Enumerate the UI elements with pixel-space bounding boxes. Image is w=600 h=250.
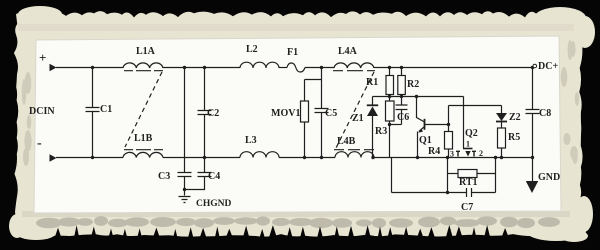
wire Z1 upper lead: [372, 97, 374, 105]
junction MOV1 bottom: [303, 156, 306, 159]
svg-text:+: +: [39, 50, 46, 65]
wire C1 upper lead: [92, 68, 94, 108]
L1A-L1B coupling dashed line: [125, 72, 162, 147]
svg-text:2: 2: [479, 149, 483, 158]
wire bottom rail seg3: [279, 157, 335, 159]
wire C3 lower lead: [184, 177, 186, 190]
wire R3 upper lead: [389, 97, 391, 102]
junction C1 bottom: [91, 156, 94, 159]
svg-text:C1: C1: [100, 104, 112, 115]
wire top rail seg4: [305, 67, 334, 69]
fuse F1: [287, 63, 305, 72]
svg-text:1: 1: [466, 140, 470, 149]
svg-text:3: 3: [450, 150, 454, 159]
svg-text:R2: R2: [407, 79, 419, 90]
svg-text:L4B: L4B: [337, 136, 356, 147]
zener Z1: [367, 104, 378, 106]
svg-text:C6: C6: [397, 112, 409, 123]
inductor L3: [240, 152, 279, 158]
junction R2 bottom: [400, 95, 403, 98]
svg-text:C3: C3: [158, 171, 170, 182]
svg-text:DCIN: DCIN: [29, 106, 55, 117]
junction C3-C4 bottom: [183, 188, 186, 191]
wire Q1 emitter lead: [417, 132, 419, 158]
wire top rail seg1: [56, 67, 123, 69]
junction Q1 base / R4: [447, 123, 450, 126]
inductor L2: [240, 62, 279, 68]
wire base bus: [449, 105, 502, 107]
wire R3 lower lead: [389, 121, 391, 125]
junction C8 bottom: [531, 156, 534, 159]
wire RT1 left vertical: [447, 158, 449, 193]
junction C8 top: [531, 66, 534, 69]
svg-text:C4: C4: [208, 171, 220, 182]
svg-text:L3: L3: [245, 135, 257, 146]
wire C6 upper lead: [401, 97, 403, 106]
svg-text:RT1: RT1: [459, 177, 478, 188]
svg-text:F1: F1: [287, 47, 298, 58]
node - input arrow: [50, 154, 57, 161]
junction R1 bottom: [388, 95, 391, 98]
svg-text:R5: R5: [508, 132, 520, 143]
junction C1 top: [91, 66, 94, 69]
svg-text:C7: C7: [461, 202, 473, 213]
triac Q2 terminals: [456, 151, 476, 156]
wire C2 upper lead: [204, 68, 206, 111]
capacitor C5: [315, 109, 329, 113]
wire R1 lower lead: [389, 95, 391, 97]
svg-text:-: -: [37, 136, 42, 151]
resistor R4: [445, 132, 453, 150]
junction R2 top: [400, 66, 403, 69]
wire bottom rail seg1: [56, 157, 123, 159]
wire R5 lower lead: [501, 148, 503, 158]
junction C5 top: [320, 66, 323, 69]
L1B core dashes: [124, 149, 163, 151]
svg-text:R1: R1: [366, 77, 378, 88]
svg-text:R4: R4: [428, 146, 440, 157]
svg-text:R3: R3: [375, 126, 387, 137]
svg-text:C2: C2: [207, 108, 219, 119]
wire R3-C6 bottom: [390, 124, 402, 126]
junction C2 bottom: [203, 156, 206, 159]
mat shading top: [18, 24, 574, 31]
svg-text:L2: L2: [246, 44, 258, 55]
wire C4 upper lead: [204, 158, 206, 173]
wire vertical x184: [184, 68, 186, 158]
capacitor C3: [178, 173, 192, 177]
wire R4 lower lead: [448, 149, 450, 158]
wire MOV1 lower lead: [304, 122, 306, 158]
thermistor RT1: [458, 170, 477, 178]
resistor R2: [398, 76, 406, 95]
wire top rail seg3: [279, 67, 287, 69]
svg-text:Q1: Q1: [419, 135, 432, 146]
wire C1 lower lead: [92, 112, 94, 158]
Q1 emitter: [419, 127, 425, 132]
capacitor C6: [396, 105, 408, 110]
junction Q1 collector tap: [415, 95, 418, 98]
wire R4 upper lead: [448, 106, 450, 132]
gray shading under panel: [22, 211, 570, 217]
wire R2 upper lead: [401, 68, 403, 76]
resistor R5: [498, 128, 506, 148]
L4A-L4B coupling dashed line: [336, 72, 374, 148]
wire C5 lower lead: [321, 113, 323, 158]
wire MOV1 branch: [305, 80, 322, 102]
wire C2 lower lead: [204, 115, 206, 158]
junction R3 bottom: [388, 123, 391, 126]
capacitor C7: [467, 188, 472, 197]
varistor MOV1: [301, 101, 309, 122]
junction Z1 bottom: [371, 156, 374, 159]
svg-text:Q2: Q2: [465, 128, 478, 139]
wire R1 upper lead: [389, 68, 391, 76]
wire R3 node to rail: [389, 125, 391, 158]
svg-text:L1B: L1B: [134, 133, 153, 144]
capacitor C1: [86, 108, 100, 112]
gray torn scallop row bottom: [36, 216, 560, 228]
junction C2 top: [203, 66, 206, 69]
svg-text:Z2: Z2: [509, 112, 521, 123]
wire Z2-R5: [501, 122, 503, 129]
svg-text:GND: GND: [538, 172, 560, 183]
gray spots left band: [22, 72, 32, 166]
inductor L4A: [334, 63, 374, 68]
transistor Q1: [417, 97, 425, 123]
svg-text:C8: C8: [539, 108, 551, 119]
resistor R1: [386, 76, 394, 95]
wire top rail seg5: [374, 67, 533, 69]
Q2 gate bar: [463, 148, 473, 150]
capacitor C4: [198, 173, 212, 177]
resistor R3: [386, 101, 395, 121]
wire C3 upper lead: [184, 158, 186, 173]
junction RT1 left top: [446, 156, 449, 159]
zener Z2: [496, 113, 507, 121]
junction C7 left: [446, 191, 449, 194]
L1A core dashes: [124, 70, 163, 72]
wire Z1 lower lead: [372, 116, 374, 158]
junction RT1 right top: [494, 156, 497, 159]
wire bottom rail seg2: [163, 157, 240, 159]
wire RT1 left lead: [448, 173, 459, 175]
gray spots right band: [561, 40, 580, 164]
wire RT1 right vertical: [495, 158, 497, 193]
svg-text:L4A: L4A: [338, 46, 358, 57]
wire loop left vertical: [391, 158, 393, 193]
wire C8 lower lead: [532, 114, 534, 158]
junction R1 top: [388, 66, 391, 69]
wire C7 right lead: [472, 192, 496, 194]
wire Q1 base: [425, 124, 449, 126]
svg-text:MOV1: MOV1: [271, 108, 300, 119]
black torn notches bottom: [54, 225, 509, 239]
wire top rail seg2: [163, 67, 240, 69]
wire Z2 upper lead: [501, 106, 503, 114]
white schematic panel: [34, 36, 561, 213]
wire C8 upper lead: [532, 68, 534, 110]
wire RT1 right lead: [477, 173, 496, 175]
svg-text:C5: C5: [325, 108, 337, 119]
wire R2 lower lead: [401, 95, 403, 97]
svg-text:CHGND: CHGND: [196, 199, 232, 209]
wire Q2 gate drive: [463, 97, 465, 149]
ground GND arrow: [526, 181, 538, 193]
capacitor C2: [198, 111, 212, 115]
inductor L1A: [123, 63, 163, 68]
wire C4 bottom L: [185, 177, 205, 190]
node + input arrow: [50, 64, 57, 71]
wire C7 left lead: [392, 192, 467, 194]
wire GND lead: [532, 158, 534, 182]
wire zener bus: [373, 96, 464, 98]
junction R5 bottom: [500, 156, 503, 159]
wire C6 lower lead: [401, 110, 403, 125]
inductor L4B: [335, 152, 374, 158]
junction x184 top: [183, 66, 186, 69]
chassis ground CHGND symbol: [179, 190, 191, 203]
junction C5 bottom: [320, 156, 323, 159]
junction Q1 emitter: [416, 156, 419, 159]
wire bottom rail seg4: [374, 157, 531, 159]
node DC+ terminal circle: [533, 64, 537, 68]
inductor L1B: [123, 152, 163, 157]
svg-text:Z1: Z1: [352, 113, 364, 124]
L4B core dashes: [334, 149, 374, 151]
capacitor C8: [526, 110, 540, 114]
svg-text:DC+: DC+: [538, 61, 558, 72]
L4A core dashes: [333, 70, 375, 72]
wire C5 upper lead: [321, 68, 323, 109]
svg-text:L1A: L1A: [136, 46, 156, 57]
